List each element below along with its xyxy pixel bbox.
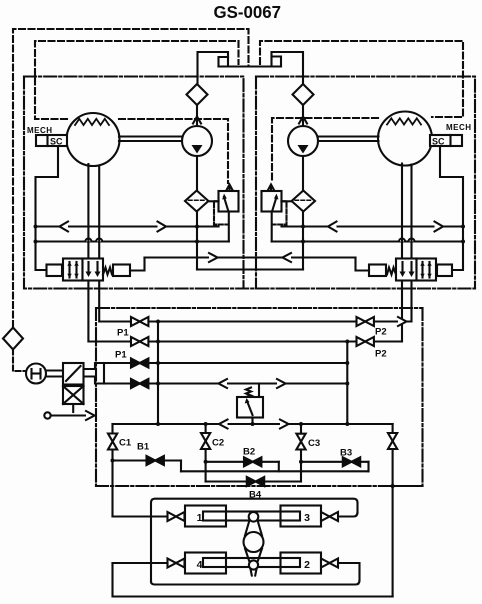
svg-text:P2: P2 (375, 349, 387, 360)
articulation link (244, 512, 264, 576)
spring V2 (387, 268, 396, 275)
cylinder 1 (185, 506, 226, 527)
shaft right (double line) (318, 135, 379, 137)
right SC linkage down (440, 146, 463, 270)
arrow right on row1 right (435, 222, 444, 232)
left drop to bottom line (113, 563, 393, 597)
wire row1 y226.5 left (36, 225, 219, 227)
wire row2 y241.5 (36, 240, 229, 242)
svg-text:B1: B1 (137, 442, 150, 453)
dash-dot steering linkage ring (97, 307, 423, 309)
cylinder 2 (281, 553, 322, 574)
frame left feed wire (113, 515, 168, 517)
motor M2 (right engine) (378, 112, 432, 166)
svg-text:P1: P1 (115, 350, 127, 361)
svg-text:GS-0067: GS-0067 (214, 2, 282, 22)
arrow left on pilot row (283, 253, 292, 262)
svg-text:B2: B2 (243, 447, 255, 458)
svg-text:MECH: MECH (27, 126, 52, 135)
svg-text:P2: P2 (375, 327, 387, 338)
left pump column down (196, 212, 198, 270)
filter F3 (left lower diamond with dashed bypass) (185, 191, 208, 212)
pump interconnect row y269.5 (197, 268, 303, 270)
shutoff box X (63, 386, 84, 404)
crossover bridge center top (198, 52, 229, 85)
directional valve V2 (right) (369, 259, 452, 281)
arrow right on pilot row (209, 253, 218, 262)
frame right down to row1 valve (335, 513, 358, 517)
row2 wire left (113, 562, 168, 564)
svg-text:SC: SC (50, 137, 63, 147)
port bracket (103, 363, 105, 384)
right row2 out (155, 563, 360, 585)
valve B3 (filled bowtie) (301, 461, 369, 463)
control box with diagonal (63, 363, 84, 385)
dash-dot mechanical frame top section (24, 77, 244, 289)
wire P1 row1 y321.5 (148, 320, 358, 322)
wire P1 row2 y341.5 (148, 340, 402, 342)
arrow left on row1 (60, 222, 69, 232)
piston rod row2 (203, 558, 300, 567)
valve B-row3 (filled bowtie) (131, 359, 140, 368)
junction dots pump columns (195, 225, 199, 229)
dashed enclosure (right) (260, 41, 463, 117)
wire row3 y363 (84, 363, 348, 369)
cyl valve 3R (open bowtie) (321, 512, 330, 521)
arrow right on row1 (158, 222, 167, 232)
inner dashed enclosure (left) (35, 41, 239, 119)
svg-text:P1: P1 (117, 328, 129, 339)
filter F1 (left top diamond) (187, 84, 208, 105)
supply filter diamond (far left) (3, 328, 23, 350)
valve B4 (filled bowtie) (206, 480, 301, 482)
svg-text:C3: C3 (308, 438, 320, 449)
pilot line V1 (130, 258, 145, 271)
shaft left (double line) (119, 135, 182, 137)
relief valve RV2 (right) (262, 185, 292, 242)
arrow left on row424 (219, 420, 228, 429)
valve P2b (open bowtie) (357, 337, 366, 346)
directional valve V1 (left) (47, 259, 131, 281)
arrow right near V2 row1 (398, 317, 407, 326)
zigzag heat symbol M2 (387, 118, 421, 124)
svg-text:MECH: MECH (446, 123, 471, 132)
dashed line behind right pump (272, 118, 378, 183)
SC box left (36, 135, 67, 146)
cyl valve 4L (open bowtie) (168, 559, 177, 568)
valve P2a (open bowtie) (357, 317, 366, 326)
piston rod row1 (203, 512, 300, 521)
right pump column down (302, 212, 304, 270)
motor M1 (left engine) (67, 113, 120, 166)
svg-text:2: 2 (304, 559, 310, 571)
valve B1 (filled bowtie) (113, 459, 182, 461)
valve C1 (111, 424, 113, 434)
hand lever (44, 412, 50, 418)
wire hops row2 (85, 239, 414, 242)
svg-text:C2: C2 (212, 438, 224, 449)
valve P1a (open bowtie) (131, 317, 140, 326)
valve C3 (300, 424, 302, 434)
valve C4 (right unlabeled) (392, 424, 394, 433)
cylinder 4 (185, 553, 226, 574)
arrow up pump L inlet (196, 105, 198, 126)
pilot crossover row y257.5 (145, 256, 356, 258)
arrow up pump R inlet (302, 105, 304, 126)
dashed line behind left pump (119, 119, 228, 183)
relief valve RV1 (left) (208, 185, 238, 242)
arrow right on row4 (277, 379, 286, 388)
motor L to valve wires (87, 164, 89, 259)
valve C2 (205, 424, 207, 433)
cyl valve 2R (open bowtie) (321, 559, 330, 568)
arrow left on row1 right (328, 222, 337, 232)
pump L outlet to filter F3 (196, 156, 198, 191)
svg-text:SC: SC (432, 137, 445, 147)
wire box to lever (72, 404, 74, 412)
motor R to valve wires (401, 164, 403, 259)
pilot line V2 (356, 258, 370, 271)
manifold column left x158 (157, 322, 159, 425)
cyl valve 1L (open bowtie) (168, 512, 177, 521)
arrow left on row4 (219, 379, 228, 388)
svg-text:C1: C1 (119, 438, 132, 449)
valve B-row4 (filled bowtie) (131, 379, 140, 388)
pump P2 (right) (288, 126, 318, 156)
hand pump H (26, 364, 46, 384)
manifold column right x347.3 (346, 342, 348, 425)
pump P1 (left) (182, 126, 212, 156)
left SC linkage down (36, 146, 59, 270)
B common wire y471.3 (181, 470, 369, 472)
wire main row y424 (113, 423, 393, 425)
svg-text:1: 1 (197, 512, 203, 524)
filter F2 (right top diamond) (293, 84, 314, 105)
relief valve RV3 (center) (237, 384, 263, 425)
zigzag heat symbol M1 (75, 119, 109, 125)
cylinder section frame top (151, 499, 358, 582)
filter F4 (right lower diamond with dashed bypass) (292, 191, 315, 212)
wire hand pump to control box (46, 369, 63, 371)
dashed wire diamond to hand pump (13, 350, 26, 372)
svg-text:3: 3 (304, 512, 310, 524)
svg-text:4: 4 (197, 559, 203, 571)
outer dashed enclosure (left) (13, 29, 249, 327)
wire row4 y383.5 (84, 377, 348, 384)
spring V1 (103, 268, 112, 275)
SC box right (430, 135, 462, 146)
pump R outlet to filter F4 (302, 156, 304, 191)
cylinder 3 (281, 506, 322, 527)
valve V2 ports down to P2 rows (373, 281, 403, 342)
arrow right on row424 (280, 420, 289, 429)
valve V1 ports down to P1 rows (88, 281, 131, 342)
valve B2 (filled bowtie) (206, 461, 279, 463)
svg-text:B3: B3 (340, 448, 352, 459)
valve P1b (open bowtie) (131, 337, 140, 346)
frame left down to row2 (151, 582, 155, 585)
wire row1 y226.5 right (282, 225, 464, 227)
